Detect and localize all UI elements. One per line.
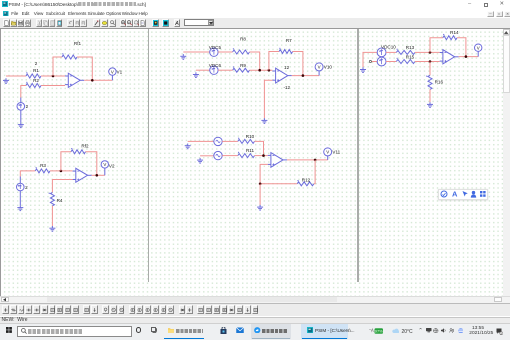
svg-text:R13: R13 bbox=[406, 45, 415, 50]
svg-text:R3: R3 bbox=[40, 163, 46, 168]
svg-text:VDC6: VDC6 bbox=[209, 63, 222, 68]
svg-text:R2: R2 bbox=[33, 78, 39, 83]
ground G12 bbox=[427, 102, 433, 107]
battery widget bbox=[368, 328, 384, 334]
explorer task button bbox=[163, 324, 205, 340]
op-amp U5 bbox=[440, 50, 459, 64]
junction J2 bbox=[91, 79, 94, 82]
op-amp U4 bbox=[268, 153, 287, 168]
wire G8 to VSIN1 bbox=[188, 140, 214, 142]
svg-text:R12: R12 bbox=[302, 177, 311, 182]
wire Rf2 to out bbox=[86, 152, 97, 176]
ground G9 bbox=[197, 158, 203, 163]
wire opamp U1 out to V1 bbox=[84, 79, 112, 81]
svg-text:V: V bbox=[318, 65, 321, 70]
voltmeter V11 bbox=[324, 148, 341, 160]
resistor R10 bbox=[238, 134, 255, 143]
voltage source VDC11 bbox=[377, 57, 386, 66]
svg-text:R14: R14 bbox=[450, 30, 459, 35]
schematic canvas bbox=[1, 29, 503, 296]
wire R11 to opamp U4 bbox=[255, 155, 268, 157]
svg-text:V2: V2 bbox=[109, 163, 115, 168]
wire R8 to J5 bbox=[250, 52, 260, 70]
ground G10 bbox=[257, 205, 263, 210]
wire G1 to R1 bbox=[6, 75, 26, 77]
op-amp U2 bbox=[73, 168, 92, 182]
wire VDC6 to R9 bbox=[218, 69, 233, 71]
wire J11 up to R14 bbox=[430, 38, 443, 53]
resistor R13 bbox=[396, 45, 415, 54]
ground G2 bbox=[18, 122, 24, 127]
wire R7 to out bbox=[293, 52, 303, 76]
wire R4 to ground G4 bbox=[51, 206, 53, 226]
wire R3 to opamp U2 bbox=[50, 170, 73, 172]
taskbar bbox=[0, 323, 510, 340]
resistor R4 bbox=[49, 192, 63, 205]
start button bbox=[6, 327, 12, 333]
wire opamp U2 plus to R4 bbox=[52, 180, 72, 193]
junction J11 bbox=[429, 51, 432, 54]
wire VSIN1 to R10 bbox=[222, 140, 238, 142]
wire VDC5 to R8 bbox=[218, 51, 233, 53]
svg-text:2: 2 bbox=[26, 104, 29, 109]
junction J5 bbox=[258, 69, 261, 72]
svg-text:V10: V10 bbox=[324, 65, 333, 70]
junction J6 bbox=[268, 69, 271, 72]
wire R15 to opamp U5 plus bbox=[415, 61, 440, 63]
ground G4 bbox=[49, 226, 55, 231]
resistor R2 bbox=[26, 78, 41, 88]
wire U4 plus left down bbox=[260, 164, 268, 183]
resistor R3 bbox=[35, 163, 50, 173]
junction J1 bbox=[52, 75, 55, 78]
wire G5 to VDC5 bbox=[183, 51, 209, 53]
svg-text:V: V bbox=[103, 162, 106, 167]
svg-text:R7: R7 bbox=[286, 38, 292, 43]
resistor Rf2 bbox=[71, 144, 89, 154]
svg-text:Rf2: Rf2 bbox=[81, 144, 89, 149]
wire Rf1 to output bbox=[77, 57, 92, 80]
wire VSIN2 to R11 bbox=[222, 155, 238, 157]
page boundary line 1 bbox=[148, 29, 149, 282]
voltmeter V10 bbox=[315, 63, 332, 76]
resistor R1 bbox=[26, 68, 41, 78]
resistor R16 bbox=[426, 75, 443, 89]
wire U2 out to V2 bbox=[92, 174, 105, 176]
resistor R15 bbox=[396, 55, 415, 64]
resistor R9 bbox=[233, 63, 250, 72]
svg-text:A: A bbox=[452, 190, 458, 198]
op-amp U3 bbox=[272, 68, 291, 83]
notification bbox=[496, 328, 503, 335]
wire U4 out to V11 bbox=[287, 159, 328, 161]
svg-text:2: 2 bbox=[35, 61, 38, 66]
svg-text:R10: R10 bbox=[246, 134, 255, 139]
svg-text:R8: R8 bbox=[240, 37, 246, 42]
resistor R12 bbox=[297, 177, 314, 186]
search box bbox=[17, 326, 132, 337]
svg-text:R9: R9 bbox=[240, 63, 246, 68]
wire VDC10 to R13 bbox=[386, 51, 396, 53]
node source2 left stub bbox=[372, 61, 378, 63]
menu bar bbox=[0, 10, 510, 18]
AC source VSIN1 bbox=[214, 137, 222, 145]
ground G7 bbox=[261, 118, 267, 123]
voltage source VDC6 bbox=[209, 63, 222, 74]
wire VS2 top lead bbox=[19, 177, 21, 184]
page boundary line 2 bbox=[357, 29, 358, 282]
resistor R11 bbox=[238, 148, 255, 158]
voltage source VS2 bbox=[17, 183, 29, 191]
svg-text:R16: R16 bbox=[435, 79, 444, 84]
ground G3 bbox=[17, 205, 23, 210]
mail icon bbox=[236, 327, 244, 334]
cortana bbox=[136, 327, 142, 333]
svg-text:V: V bbox=[477, 46, 480, 51]
wire U3 plus to ground G7 bbox=[264, 80, 272, 118]
screenshot snip widget bbox=[438, 189, 488, 200]
resistor Rf1 bbox=[62, 41, 82, 59]
wire left branch to ground G11 bbox=[363, 52, 377, 67]
junction J8 bbox=[262, 154, 265, 157]
wire R14 to out bbox=[457, 38, 466, 57]
wire G6 to VDC6 bbox=[196, 69, 210, 71]
svg-text:V: V bbox=[111, 69, 114, 74]
wire VDC11 to R15 bbox=[386, 61, 396, 63]
junction J12 bbox=[429, 60, 432, 63]
wire J9 down to R12 bbox=[314, 160, 315, 184]
svg-text:VDC5: VDC5 bbox=[209, 45, 222, 50]
wire J1 up to Rf1 bbox=[53, 57, 62, 76]
vertical scrollbar bbox=[503, 29, 510, 297]
AC source VSIN2 bbox=[214, 151, 222, 159]
junction J10 bbox=[259, 183, 262, 186]
voltage source VDC10 bbox=[377, 45, 396, 57]
toolbar row bbox=[0, 18, 510, 29]
junction J4 bbox=[96, 174, 99, 177]
resistor R7 bbox=[279, 38, 293, 53]
wire R10 to J8 bbox=[255, 141, 264, 155]
weather bbox=[392, 328, 399, 334]
junction J13 bbox=[465, 55, 468, 58]
svg-text:12: 12 bbox=[284, 65, 290, 70]
junction J7 bbox=[302, 74, 305, 77]
junction J9 bbox=[314, 159, 317, 162]
resistor R8 bbox=[233, 37, 250, 55]
wire source V2 lead bbox=[20, 98, 22, 103]
wire R12 to J10 bbox=[260, 183, 297, 185]
svg-text:97%: 97% bbox=[374, 328, 382, 333]
svg-text:V: V bbox=[326, 150, 329, 155]
store icon bbox=[220, 327, 227, 335]
wire J3 up to Rf2 bbox=[61, 152, 71, 171]
svg-text:R1: R1 bbox=[33, 68, 39, 73]
voltmeter V12 bbox=[475, 44, 482, 57]
svg-text:R11: R11 bbox=[246, 148, 255, 153]
wire R2 to opamp plus bbox=[41, 85, 65, 87]
ground G5 bbox=[180, 54, 186, 59]
PSIM task button (active) bbox=[301, 324, 348, 340]
junction J3 bbox=[60, 170, 63, 173]
wire R2 left down bbox=[21, 86, 26, 98]
wire J10 to ground G10 bbox=[259, 184, 261, 205]
voltmeter V2 bbox=[101, 161, 115, 176]
svg-text:VDC10: VDC10 bbox=[381, 45, 396, 50]
op-amp U1 bbox=[65, 73, 84, 87]
svg-text:2: 2 bbox=[25, 185, 28, 190]
wire G9 to VSIN2 bbox=[200, 155, 214, 157]
clock bbox=[472, 326, 484, 331]
wire VS2 to ground G3 bbox=[19, 191, 21, 206]
status bar bbox=[0, 317, 510, 324]
wire VS1 to ground bbox=[20, 110, 22, 122]
title bar bbox=[0, 0, 510, 10]
wire R16 to ground G12 bbox=[429, 89, 431, 102]
svg-text:R15: R15 bbox=[406, 55, 415, 60]
wire R13 to opamp U5 bbox=[415, 51, 440, 53]
ground G11 bbox=[360, 67, 366, 72]
resistor R14 bbox=[443, 30, 459, 40]
ground G1 bbox=[3, 78, 9, 83]
wire U5 out to V bbox=[459, 56, 479, 58]
wire U3 out to V10 bbox=[292, 75, 319, 77]
lenovo task button bbox=[251, 324, 291, 340]
voltage source VDC5 bbox=[209, 45, 222, 56]
voltage source VS1 bbox=[17, 103, 29, 111]
svg-text:Rf1: Rf1 bbox=[74, 41, 82, 46]
task view bbox=[151, 327, 158, 333]
wire R1 to opamp U1 bbox=[41, 75, 65, 77]
wire J6 up to R7 bbox=[269, 52, 279, 71]
voltmeter V1 bbox=[109, 68, 123, 80]
wire VS2 to R3 bbox=[20, 171, 35, 177]
wire R9 to opamp U3 bbox=[250, 69, 273, 71]
horizontal scrollbar bbox=[0, 296, 510, 303]
ground G6 bbox=[193, 72, 199, 77]
svg-text:V11: V11 bbox=[332, 150, 340, 155]
svg-text:V1: V1 bbox=[117, 70, 123, 75]
svg-text:-12: -12 bbox=[283, 85, 290, 90]
svg-text:R4: R4 bbox=[57, 198, 63, 203]
element toolbar bbox=[0, 303, 510, 316]
ground G8 bbox=[185, 144, 191, 149]
wire J12 down to R16 bbox=[429, 62, 431, 76]
